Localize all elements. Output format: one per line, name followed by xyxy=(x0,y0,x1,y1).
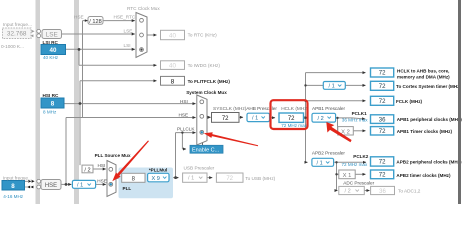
svg-text:LSI: LSI xyxy=(124,43,131,48)
svg-text:APB2 Prescaler: APB2 Prescaler xyxy=(312,150,346,155)
svg-text:RTC Clock Mux: RTC Clock Mux xyxy=(127,6,160,11)
svg-text:HSI: HSI xyxy=(180,99,188,104)
svg-text:PCLK2: PCLK2 xyxy=(353,154,369,159)
svg-text:X 1: X 1 xyxy=(343,173,352,179)
svg-text:36: 36 xyxy=(379,189,386,195)
svg-text:LSE: LSE xyxy=(46,32,58,39)
svg-text:HSE: HSE xyxy=(179,112,189,117)
svg-text:/ 1: / 1 xyxy=(252,116,258,122)
svg-text:72: 72 xyxy=(222,116,229,122)
svg-text:8: 8 xyxy=(51,101,55,108)
svg-text:*PLLMul: *PLLMul xyxy=(149,167,167,172)
svg-text:X 9: X 9 xyxy=(152,176,160,182)
svg-text:To IWDG (KHz): To IWDG (KHz) xyxy=(188,63,221,68)
svg-text:LSE: LSE xyxy=(124,28,133,33)
svg-text:40: 40 xyxy=(169,63,176,70)
svg-text:72: 72 xyxy=(226,176,233,182)
svg-text:36 MHz max: 36 MHz max xyxy=(342,118,368,123)
svg-text:HSI: HSI xyxy=(98,163,106,168)
svg-text:72 MHz max: 72 MHz max xyxy=(281,123,307,128)
svg-text:ADC Prescaler: ADC Prescaler xyxy=(343,181,374,186)
svg-text:40: 40 xyxy=(169,32,176,39)
svg-text:72: 72 xyxy=(379,84,386,90)
svg-text:/ 1: / 1 xyxy=(329,84,335,90)
svg-text:PCLK1: PCLK1 xyxy=(352,111,368,116)
svg-text:FCLK (MHz): FCLK (MHz) xyxy=(396,99,422,104)
svg-text:40 KHz: 40 KHz xyxy=(43,55,59,60)
svg-text:To USB (MHz): To USB (MHz) xyxy=(245,176,275,181)
svg-text:HCLK (MHz): HCLK (MHz) xyxy=(281,106,309,112)
svg-text:APB2 peripheral clocks (MHz): APB2 peripheral clocks (MHz) xyxy=(396,160,462,165)
svg-text:72: 72 xyxy=(379,71,386,77)
svg-text:0-1000 K...: 0-1000 K... xyxy=(1,44,24,49)
svg-text:HSE_RTC: HSE_RTC xyxy=(114,14,136,19)
svg-text:APB1 Timer clocks (MHz): APB1 Timer clocks (MHz) xyxy=(397,129,453,134)
svg-text:4-16 MHz: 4-16 MHz xyxy=(3,194,24,199)
svg-text:HSE: HSE xyxy=(74,15,84,20)
svg-text:/ 1: / 1 xyxy=(317,161,323,167)
svg-text:HSE: HSE xyxy=(45,183,57,189)
svg-text:PLL Source Mux: PLL Source Mux xyxy=(95,153,131,158)
svg-text:To RTC (KHz): To RTC (KHz) xyxy=(188,33,218,38)
svg-text:72 MHz max: 72 MHz max xyxy=(342,162,368,167)
svg-text:AHB Prescaler: AHB Prescaler xyxy=(246,106,277,111)
svg-text:/ 128: / 128 xyxy=(89,19,101,25)
svg-text:/ 2: / 2 xyxy=(84,167,90,173)
svg-text:Input freque...: Input freque... xyxy=(3,176,32,181)
svg-text:SYSCLK (MHz): SYSCLK (MHz) xyxy=(213,106,247,112)
svg-text:memory and DMA (MHz): memory and DMA (MHz) xyxy=(397,75,450,80)
svg-text:72: 72 xyxy=(379,99,386,105)
svg-text:APB2 timer clocks (MHz): APB2 timer clocks (MHz) xyxy=(396,173,451,178)
svg-text:/ 1: / 1 xyxy=(77,183,83,189)
svg-text:36: 36 xyxy=(379,117,386,123)
svg-text:APB1 Prescaler: APB1 Prescaler xyxy=(312,106,346,111)
svg-text:HSI RC: HSI RC xyxy=(43,93,60,98)
svg-text:LSI RC: LSI RC xyxy=(43,40,59,45)
svg-text:To FLITFCLK (MHz): To FLITFCLK (MHz) xyxy=(188,79,231,84)
svg-text:72: 72 xyxy=(288,116,295,122)
svg-text:USB Prescaler: USB Prescaler xyxy=(184,166,215,171)
svg-text:/ 2: / 2 xyxy=(318,116,324,122)
svg-text:System Clock Mux: System Clock Mux xyxy=(186,90,227,95)
svg-text:PLLCLK: PLLCLK xyxy=(177,126,195,131)
svg-text:Input freque...: Input freque... xyxy=(3,22,32,27)
svg-text:HCLK to AHB bus, core,: HCLK to AHB bus, core, xyxy=(397,68,449,73)
svg-text:8: 8 xyxy=(171,79,175,86)
svg-text:HSE: HSE xyxy=(97,178,107,183)
svg-text:40: 40 xyxy=(50,47,57,54)
svg-text:72: 72 xyxy=(379,129,386,135)
svg-text:8: 8 xyxy=(11,183,15,190)
svg-text:To ADC1,2: To ADC1,2 xyxy=(398,189,421,194)
svg-text:8 MHz: 8 MHz xyxy=(43,110,57,115)
svg-text:72: 72 xyxy=(379,159,386,165)
svg-text:To Cortex System timer (MHz): To Cortex System timer (MHz) xyxy=(396,84,461,89)
svg-text:/ 1: / 1 xyxy=(188,176,194,182)
svg-text:72: 72 xyxy=(379,173,386,179)
svg-text:32.768: 32.768 xyxy=(7,31,27,38)
svg-text:/ 2: / 2 xyxy=(345,189,351,195)
svg-text:Enable C...: Enable C... xyxy=(192,148,220,154)
svg-text:APB1 peripheral clocks (MHz): APB1 peripheral clocks (MHz) xyxy=(397,117,463,122)
svg-text:PLL: PLL xyxy=(123,186,132,191)
